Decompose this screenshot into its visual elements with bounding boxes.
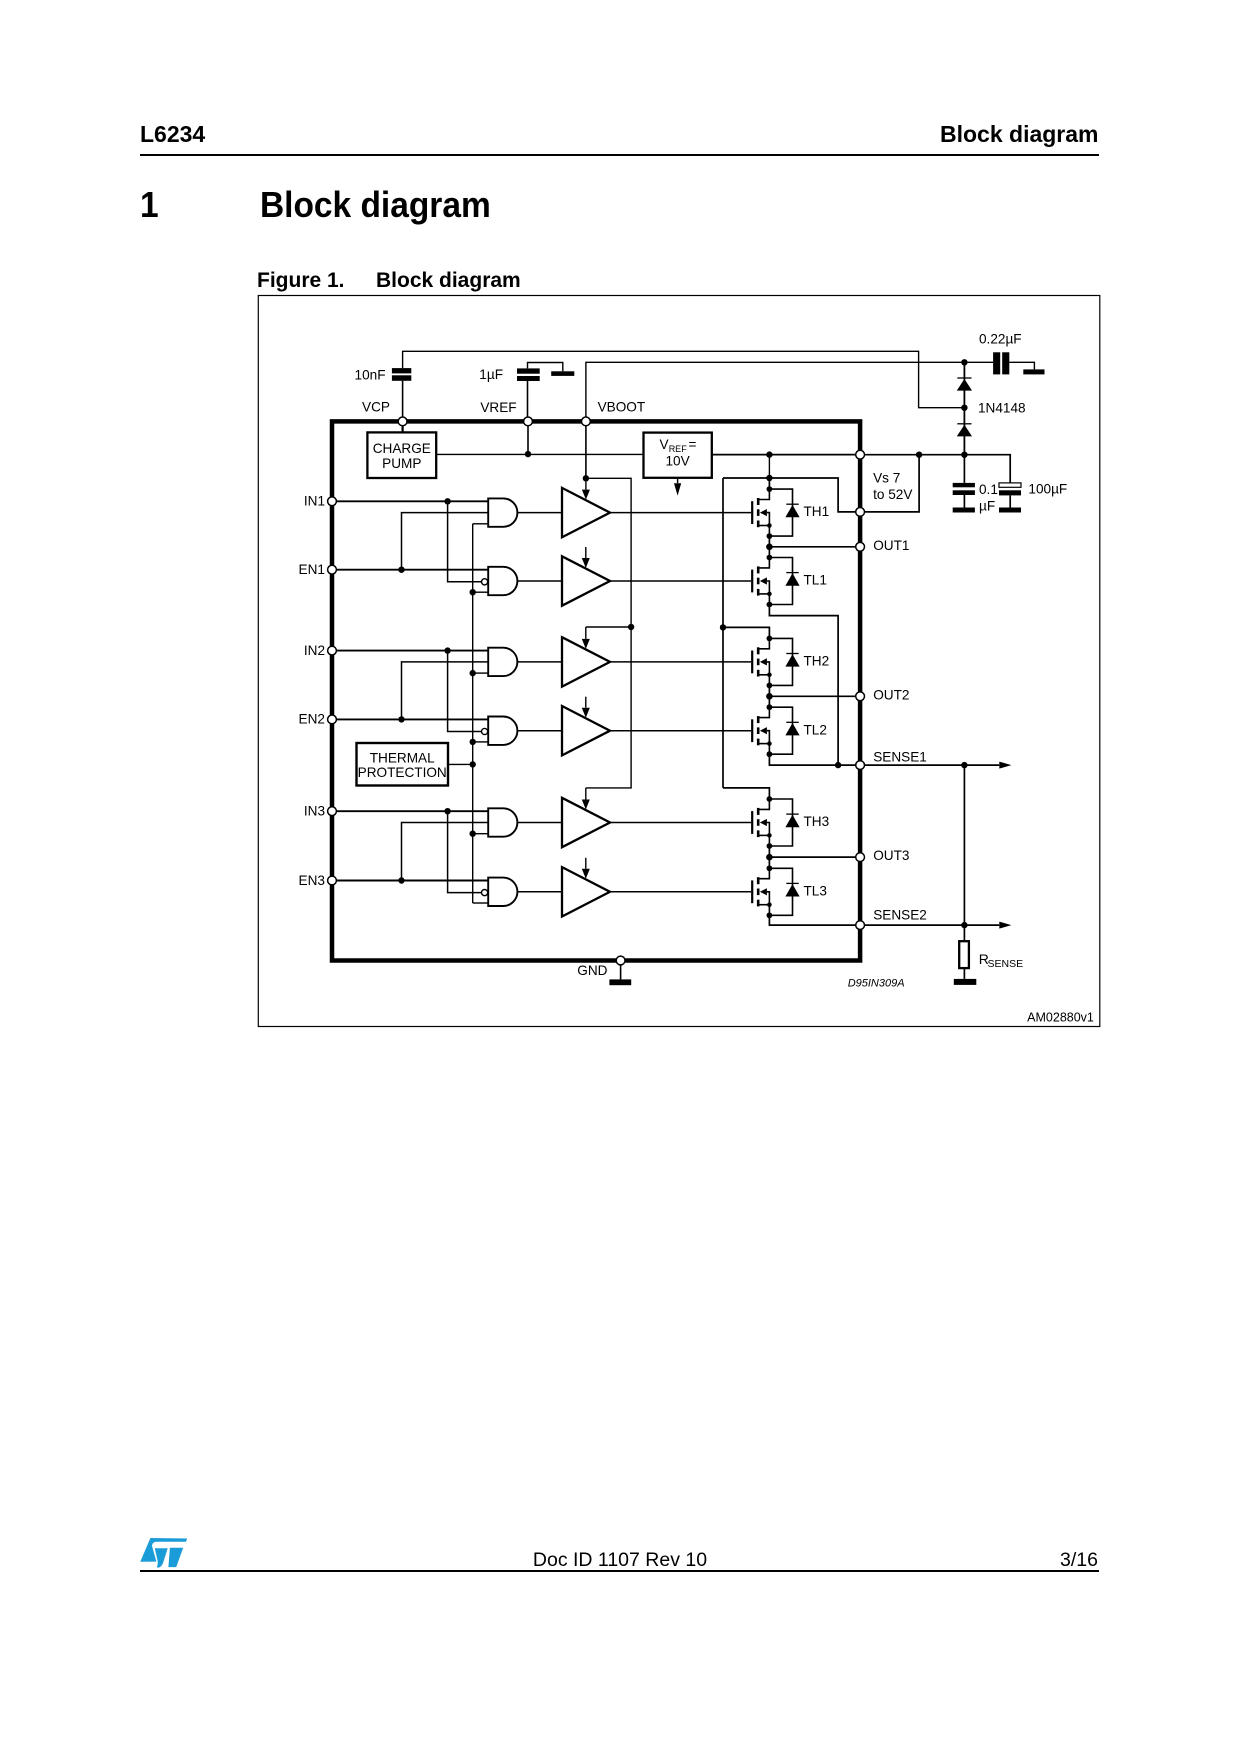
svg-text:0.1: 0.1	[979, 482, 998, 497]
svg-text:OUT2: OUT2	[873, 688, 909, 703]
svg-text:IN2: IN2	[304, 643, 325, 658]
svg-text:µF: µF	[979, 499, 995, 514]
svg-text:IN1: IN1	[304, 494, 325, 509]
svg-text:GND: GND	[577, 963, 607, 978]
svg-text:VBOOT: VBOOT	[598, 400, 646, 415]
svg-text:10nF: 10nF	[355, 367, 386, 382]
svg-text:PUMP: PUMP	[382, 456, 421, 471]
svg-text:VCP: VCP	[362, 400, 390, 415]
svg-text:TL1: TL1	[804, 573, 827, 588]
svg-text:Vs 7: Vs 7	[873, 471, 900, 486]
svg-text:TL2: TL2	[804, 722, 827, 737]
svg-text:EN1: EN1	[299, 562, 325, 577]
svg-text:THERMAL: THERMAL	[370, 750, 435, 765]
svg-text:EN3: EN3	[299, 873, 325, 888]
svg-text:CHARGE: CHARGE	[373, 441, 431, 456]
svg-text:EN2: EN2	[299, 712, 325, 727]
svg-text:SENSE1: SENSE1	[873, 750, 927, 765]
svg-text:1µF: 1µF	[479, 367, 503, 382]
svg-text:D95IN309A: D95IN309A	[848, 978, 905, 990]
svg-text:OUT1: OUT1	[873, 538, 909, 553]
svg-text:VREF: VREF	[480, 400, 516, 415]
svg-text:OUT3: OUT3	[873, 848, 909, 863]
svg-text:to 52V: to 52V	[873, 487, 912, 502]
svg-text:TH2: TH2	[804, 654, 830, 669]
svg-text:PROTECTION: PROTECTION	[358, 765, 447, 780]
svg-text:TH1: TH1	[804, 504, 830, 519]
svg-text:=: =	[689, 437, 697, 452]
svg-text:TL3: TL3	[804, 883, 827, 898]
svg-text:10V: 10V	[666, 454, 690, 469]
svg-text:SENSE2: SENSE2	[873, 907, 927, 922]
svg-text:SENSE: SENSE	[988, 958, 1024, 970]
svg-text:1N4148: 1N4148	[978, 401, 1026, 416]
svg-text:100µF: 100µF	[1028, 481, 1067, 496]
svg-text:TH3: TH3	[804, 814, 830, 829]
svg-text:0.22µF: 0.22µF	[979, 332, 1022, 347]
svg-text:V: V	[660, 437, 669, 452]
svg-text:IN3: IN3	[304, 804, 325, 819]
svg-text:AM02880v1: AM02880v1	[1027, 1011, 1094, 1025]
